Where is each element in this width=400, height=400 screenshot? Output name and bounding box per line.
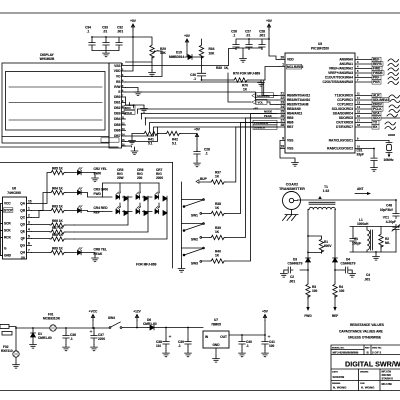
LCD pin numbers column [122, 64, 125, 147]
svg-text:PKF: PKF [373, 76, 379, 80]
diode D4 [333, 258, 356, 266]
C26-C28 rail wires [236, 28, 269, 56]
svg-text:5: 5 [28, 235, 30, 239]
svg-text:VO: VO [116, 75, 121, 79]
resistor R67 1K [32, 226, 75, 234]
svg-text:.001: .001 [117, 30, 123, 34]
svg-text:DNSV: DNSV [373, 103, 383, 107]
resistor R66 1K [32, 219, 75, 227]
svg-text:SDO/CLK: SDO/CLK [257, 94, 270, 98]
net boxes left of bus [124, 106, 135, 116]
cap C48 [380, 200, 399, 219]
svg-text:10MHz: 10MHz [384, 158, 395, 162]
svg-text:GND: GND [4, 254, 12, 258]
VSS wires to ground [280, 141, 295, 161]
svg-text:QD: QD [20, 223, 25, 227]
chassis ground below coax [283, 215, 299, 221]
svg-text:1K: 1K [215, 254, 220, 258]
svg-text:RCK: RCK [4, 236, 12, 240]
resistor R70 1K [202, 69, 268, 102]
svg-text:SW1: SW1 [191, 213, 198, 217]
svg-text:5.1: 5.1 [148, 142, 153, 146]
diode D6 [143, 318, 203, 330]
svg-text:RB4/AN11: RB4/AN11 [287, 112, 302, 116]
svg-text:2 OF 2: 2 OF 2 [372, 351, 382, 355]
long wire rail y152 [0, 146, 173, 268]
svg-text:RESISTANCE VALUES: RESISTANCE VALUES [350, 323, 384, 327]
svg-text:14: 14 [357, 105, 360, 109]
LED CR8 yellow PEAK [78, 248, 107, 262]
svg-text:DT/RX/RC7: DT/RX/RC7 [336, 125, 353, 129]
svg-text:.1: .1 [87, 30, 90, 34]
U6 left bus wires [1, 204, 3, 256]
svg-text:SCR: SCR [4, 222, 11, 226]
svg-text:9: 9 [357, 137, 359, 141]
svg-text:4: 4 [28, 228, 30, 232]
svg-text:MFJ 269: MFJ 269 [382, 382, 393, 386]
svg-text:.1: .1 [178, 344, 181, 348]
U3 right net squiggle connectors [381, 59, 400, 130]
svg-text:SW4: SW4 [108, 316, 115, 320]
ground below LCD pins [131, 149, 138, 155]
svg-text:5: 5 [357, 69, 359, 73]
svg-text:VDD: VDD [114, 69, 121, 73]
svg-text:20W: 20W [117, 176, 124, 180]
matrix feed rails [103, 183, 160, 212]
cap C2 [280, 262, 308, 284]
svg-text:22: 22 [280, 96, 284, 100]
U3 right net label boxes [372, 57, 389, 129]
boxed label LCD backlight [101, 138, 119, 142]
svg-text:QG: QG [20, 244, 25, 248]
U3 right pin numbers [357, 56, 360, 149]
cap C30 [190, 73, 206, 81]
op IC U3 PIC18F2520 body [285, 42, 355, 153]
cap C39 [178, 328, 191, 351]
boxed net label SDI/BLK [253, 125, 277, 130]
svg-text:SCK: SCK [4, 229, 11, 233]
ground left of R41 [131, 134, 133, 139]
ground below C26-C28 [240, 56, 247, 62]
svg-text:1K: 1K [243, 88, 248, 92]
svg-text:QB: QB [20, 209, 25, 213]
cap rail wires [92, 37, 133, 51]
svg-text:15: 15 [357, 110, 360, 114]
net texts NODE PEAK [264, 110, 272, 119]
bypass cap C33 [102, 26, 109, 48]
svg-text:CR8 YEL: CR8 YEL [94, 248, 107, 252]
power jack J1 [0, 325, 16, 336]
svg-text:C48: C48 [386, 204, 392, 208]
svg-text:MODEL NO.: MODEL NO. [332, 348, 345, 350]
LCD pin stubs to bus [122, 49, 237, 147]
svg-text:.01: .01 [103, 30, 108, 34]
LCD text row line 1 [9, 86, 102, 88]
svg-text:MCLR/RE3: MCLR/RE3 [287, 65, 304, 69]
svg-text:RB1/INT1/AN10: RB1/INT1/AN10 [287, 98, 310, 102]
wire VSS down to gnd [126, 146, 135, 149]
svg-text:.1: .1 [205, 152, 208, 156]
diode D15 MMBD914 [169, 45, 202, 59]
title block date row [332, 370, 393, 390]
svg-text:10K: 10K [160, 51, 167, 55]
+VCC arrow [89, 310, 98, 329]
bypass cap C27 [245, 30, 252, 50]
svg-text:4-20pF: 4-20pF [386, 220, 396, 224]
svg-text:CAPACITANCE VALUES ARE: CAPACITANCE VALUES ARE [339, 330, 383, 334]
LCD display window inner frame [6, 72, 106, 131]
svg-text:R/W: R/W [114, 85, 120, 89]
svg-text:SDI/BLK: SDI/BLK [254, 126, 265, 130]
U6 right pin stubs [1, 204, 32, 256]
svg-text:C1OUT/T0CKI/RA4: C1OUT/T0CKI/RA4 [325, 76, 353, 80]
svg-text:20: 20 [280, 56, 284, 60]
resistor R68 1K [32, 233, 75, 241]
svg-text:1:15: 1:15 [323, 189, 330, 193]
svg-text:STARKVI: STARKVI [382, 377, 393, 381]
svg-text:PEAK: PEAK [264, 114, 272, 118]
svg-text:.1: .1 [246, 344, 249, 348]
svg-text:VDD: VDD [287, 58, 294, 62]
+12V arrow [133, 310, 141, 328]
svg-text:DB3: DB3 [114, 112, 121, 116]
load cap C31 33pF [357, 149, 378, 166]
svg-text:200: 200 [137, 176, 143, 180]
+5V supply arrow LCD [126, 19, 137, 71]
LCD lower edge line [2, 136, 109, 138]
svg-text:+5V: +5V [184, 34, 191, 38]
svg-text:RB2/INT2/AN8: RB2/INT2/AN8 [287, 103, 309, 107]
svg-text:R63 1K: R63 1K [52, 205, 64, 209]
svg-text:PCLK: PCLK [125, 111, 132, 115]
svg-text:SW3: SW3 [191, 261, 198, 265]
svg-text:DRAWN: DRAWN [360, 371, 369, 374]
svg-text:R64 1K: R64 1K [52, 187, 64, 191]
svg-text:PCLK: PCLK [373, 107, 382, 111]
switch SW2 [182, 223, 205, 242]
svg-text:23: 23 [280, 101, 284, 105]
LCD text row line 2 [9, 102, 102, 104]
resistor R34 10K [199, 39, 215, 73]
svg-text:SCL/SCK/RC3: SCL/SCK/RC3 [332, 107, 353, 111]
svg-text:SW2: SW2 [191, 237, 198, 241]
svg-text:E: E [118, 90, 120, 94]
svg-text:FWD: FWD [94, 192, 102, 196]
svg-text:DB7: DB7 [114, 134, 121, 138]
junction dots power rail [15, 327, 266, 336]
variable cap VC1 [383, 216, 400, 253]
svg-text:26: 26 [280, 114, 284, 118]
notes text [339, 323, 384, 340]
svg-text:REFB: REFB [373, 62, 382, 66]
svg-text:33pF: 33pF [357, 153, 364, 157]
U6 left pin labels [3, 202, 13, 258]
cap C36 [63, 328, 76, 345]
svg-text:VSS: VSS [287, 147, 293, 151]
ground below C38 [163, 351, 170, 357]
resistor R42 [165, 131, 197, 145]
svg-text:+5V: +5V [253, 107, 258, 111]
svg-text:SDA/SDI/RC4: SDA/SDI/RC4 [333, 112, 353, 116]
resistor R4 100 [332, 270, 345, 318]
svg-text:1: 1 [28, 207, 30, 211]
junction dots top [91, 36, 375, 149]
svg-text:+VCC: +VCC [89, 310, 98, 314]
title block header text [332, 348, 382, 355]
U3 pin number stubs left [277, 60, 285, 149]
svg-text:110: 110 [156, 344, 161, 348]
svg-text:R66 1K: R66 1K [52, 219, 64, 223]
svg-text:+5V: +5V [194, 128, 201, 132]
svg-text:100: 100 [339, 289, 345, 293]
svg-text:R34: R34 [209, 47, 215, 51]
svg-text:VREF-/AN2/RA2: VREF-/AN2/RA2 [329, 67, 353, 71]
resistor R69 1K [32, 247, 78, 255]
svg-text:CMR1-60: CMR1-60 [38, 336, 52, 340]
ground below C37 [91, 345, 98, 351]
svg-text:300 IND: 300 IND [382, 373, 392, 377]
svg-text:UNLESS OTHERWISE: UNLESS OTHERWISE [348, 336, 381, 340]
ground near R70 [258, 80, 265, 86]
svg-text:VOL: VOL [258, 100, 264, 104]
cap C4 [335, 262, 370, 282]
svg-text:ANT: ANT [357, 187, 364, 191]
ground below C41 [262, 351, 269, 357]
svg-text:PIC18F2520: PIC18F2520 [311, 47, 329, 51]
crystal circuit Y1 10MHz [384, 141, 395, 163]
svg-text:SDA: SDA [373, 112, 380, 116]
svg-text:PKR: PKR [373, 80, 380, 84]
svg-text:QC: QC [20, 216, 25, 220]
svg-text:1K: 1K [215, 230, 220, 234]
svg-text:AN1/RA1: AN1/RA1 [339, 62, 353, 66]
svg-text:N/L: N/L [385, 241, 390, 245]
contrast pot R29 [126, 37, 167, 77]
resistor R3 100 [304, 270, 317, 318]
svg-text:6: 6 [357, 74, 359, 78]
switch SW3 [182, 247, 205, 265]
svg-text:SDO/RC5: SDO/RC5 [339, 116, 353, 120]
svg-text:10K: 10K [209, 52, 216, 56]
svg-text:TX: TX [373, 121, 378, 125]
resistor R64 1K [32, 187, 78, 211]
svg-text:RB0/INT0/AN12: RB0/INT0/AN12 [287, 94, 310, 98]
fuse F02 [1, 328, 19, 362]
title block frame [331, 345, 400, 391]
svg-text:RXE110: RXE110 [1, 349, 13, 353]
svg-text:T13CKI/RC0: T13CKI/RC0 [335, 94, 353, 98]
svg-text:U7: U7 [214, 318, 218, 322]
svg-text:1000uH: 1000uH [357, 222, 369, 226]
svg-text:R70 FOR MFJ-869: R70 FOR MFJ-869 [233, 72, 260, 76]
svg-text:RB7: RB7 [287, 125, 294, 129]
data bus wires LCD to U3 [126, 82, 278, 142]
svg-text:10pF3kV: 10pF3kV [380, 208, 394, 212]
svg-text:.1: .1 [193, 77, 196, 81]
svg-text:19: 19 [280, 145, 284, 149]
svg-text:2000: 2000 [156, 176, 163, 180]
svg-text:REV: REV [365, 348, 370, 350]
cap C28b [194, 148, 210, 161]
U3 left pin numbers [280, 56, 284, 149]
svg-text:RA7/CLKI/OSC1: RA7/CLKI/OSC1 [329, 139, 353, 143]
ground on RW line [135, 90, 142, 96]
svg-text:12: 12 [357, 96, 360, 100]
LCD pin names VSS..DB7 [114, 64, 121, 138]
cap C1 150pF [350, 227, 361, 253]
svg-text:QH: QH [20, 251, 25, 255]
svg-text:7: 7 [28, 249, 30, 253]
diode D3 [288, 258, 311, 266]
svg-text:2: 2 [357, 56, 359, 60]
dual LED CR5 R/G 20W [74, 168, 128, 225]
resistor R37 1K [200, 127, 278, 184]
svg-text:18: 18 [357, 123, 360, 127]
svg-text:RB3/AN9: RB3/AN9 [287, 107, 301, 111]
cap C40 [239, 335, 252, 351]
svg-text:DB4: DB4 [114, 117, 121, 121]
zener D1 [31, 328, 52, 342]
svg-text:.1: .1 [70, 337, 73, 341]
svg-text:IN: IN [205, 335, 209, 339]
ground below C36 [63, 345, 70, 351]
bypass cap C28 [259, 30, 266, 50]
svg-text:DB1: DB1 [114, 101, 121, 105]
resistor R2 N/L [379, 227, 390, 253]
svg-text:CK/TX/RC6: CK/TX/RC6 [336, 121, 353, 125]
svg-text:N. WONG: N. WONG [333, 386, 347, 390]
svg-text:7: 7 [357, 78, 359, 82]
U6 right pin labels [20, 202, 26, 260]
svg-text:150pF: 150pF [352, 242, 361, 246]
display reference label [40, 53, 55, 61]
inductor L1 1000uH [350, 218, 396, 252]
wire MCLR feed from R34 [265, 67, 279, 81]
LCD display module U1 outer body [2, 63, 109, 143]
resistor R41 [132, 131, 165, 145]
svg-text:B: B [367, 351, 370, 355]
+5V arrow mid [194, 128, 201, 150]
+5V arrow output [262, 310, 269, 336]
bypass cap C32 [116, 26, 124, 48]
+5V supply arrow PIC [266, 19, 279, 60]
svg-text:13: 13 [357, 101, 360, 105]
svg-text:4: 4 [357, 65, 359, 69]
svg-text:RS: RS [116, 80, 120, 84]
svg-text:FOR MFJ-869: FOR MFJ-869 [136, 263, 157, 267]
svg-text:CSHNET9: CSHNET9 [341, 262, 356, 266]
svg-text:R35: R35 [216, 66, 222, 70]
svg-text:2200: 2200 [98, 337, 105, 341]
antenna net arrow ANT [355, 187, 371, 195]
svg-text:HDR2: HDR2 [388, 133, 396, 137]
svg-text:G: G [4, 247, 7, 251]
svg-text:NODE: NODE [264, 110, 272, 114]
svg-text:QA: QA [20, 202, 25, 206]
svg-text:CR2 YEL: CR2 YEL [94, 167, 107, 171]
svg-text:.001: .001 [364, 278, 370, 282]
shift register U6 74HC595 [3, 187, 27, 260]
svg-text:FWD: FWD [373, 67, 381, 71]
LED CR3 green FWD [78, 188, 109, 198]
svg-text:+5V: +5V [130, 19, 137, 23]
dual LED CR6 R/G 200 [74, 168, 148, 232]
ground for unused data lines [141, 106, 148, 112]
U3 right pin labels [323, 58, 354, 151]
ground below caps [103, 51, 110, 57]
cap C37 polarized [90, 328, 105, 345]
svg-text:FWDB: FWDB [373, 71, 383, 75]
resistor R39 1K [202, 118, 276, 240]
svg-text:DWG NO.: DWG NO. [372, 348, 382, 350]
svg-text:600V: 600V [324, 244, 332, 248]
svg-text:+12V: +12V [133, 310, 141, 314]
svg-text:GND: GND [212, 343, 220, 347]
switch SW4 [108, 316, 148, 328]
svg-text:VSS: VSS [114, 64, 120, 68]
svg-text:02/16/09: 02/16/09 [333, 375, 345, 379]
resistor R38 1K [202, 123, 277, 216]
ground below C40 [239, 351, 246, 357]
svg-text:QF: QF [21, 237, 25, 241]
svg-text:U3: U3 [318, 42, 322, 46]
svg-text:RX: RX [373, 125, 378, 129]
junction dots RF [307, 199, 397, 271]
resistor R35 label [216, 66, 229, 70]
boxed net label VOL [252, 99, 277, 104]
svg-text:MCB331DK: MCB331DK [43, 317, 61, 321]
svg-text:3: 3 [357, 60, 359, 64]
svg-text:1K: 1K [215, 175, 220, 179]
LED CR4 red REF [78, 206, 109, 215]
svg-text:DATE: DATE [332, 371, 338, 374]
svg-text:1: 1 [282, 63, 284, 67]
junction dots on bus [129, 104, 147, 119]
svg-text:6: 6 [28, 242, 30, 246]
coax connector COAX2 TRANSMITTER [279, 183, 305, 215]
svg-text:VCC: VCC [4, 202, 11, 206]
svg-text:VSS: VSS [287, 139, 293, 143]
svg-text:27: 27 [280, 119, 284, 123]
svg-text:TRANSMITTER: TRANSMITTER [279, 187, 305, 191]
svg-text:DIGITAL SWR/W: DIGITAL SWR/W [345, 360, 400, 369]
svg-text:FWD: FWD [304, 314, 312, 318]
svg-text:H. WONG: H. WONG [361, 386, 375, 390]
frame top border [0, 12, 400, 14]
U3 right pin stubs [355, 60, 389, 149]
U3 left pin labels [286, 58, 310, 151]
ground below pot R29 [149, 70, 156, 76]
svg-text:R68 1K: R68 1K [52, 233, 64, 237]
ground below U7 [213, 356, 220, 362]
svg-text:CR3 GRN: CR3 GRN [94, 188, 109, 192]
svg-text:5.1: 5.1 [172, 142, 177, 146]
transformer T1 [298, 185, 397, 258]
svg-text:100: 100 [312, 289, 318, 293]
svg-text:11: 11 [357, 92, 360, 96]
svg-text:U6: U6 [12, 187, 16, 191]
svg-text:CCP2/RC1: CCP2/RC1 [337, 98, 353, 102]
svg-text:AN0/RA0: AN0/RA0 [339, 58, 353, 62]
svg-text:VREF+/AN3/RA3: VREF+/AN3/RA3 [328, 71, 353, 75]
svg-text:78M05: 78M05 [211, 323, 221, 327]
bypass cap C26 [231, 30, 239, 50]
LCD pin header strip [109, 63, 122, 148]
svg-text:DB0: DB0 [114, 95, 121, 99]
svg-text:DB2: DB2 [114, 106, 121, 110]
ground below C28b [194, 161, 201, 167]
svg-text:RB6: RB6 [287, 121, 294, 125]
